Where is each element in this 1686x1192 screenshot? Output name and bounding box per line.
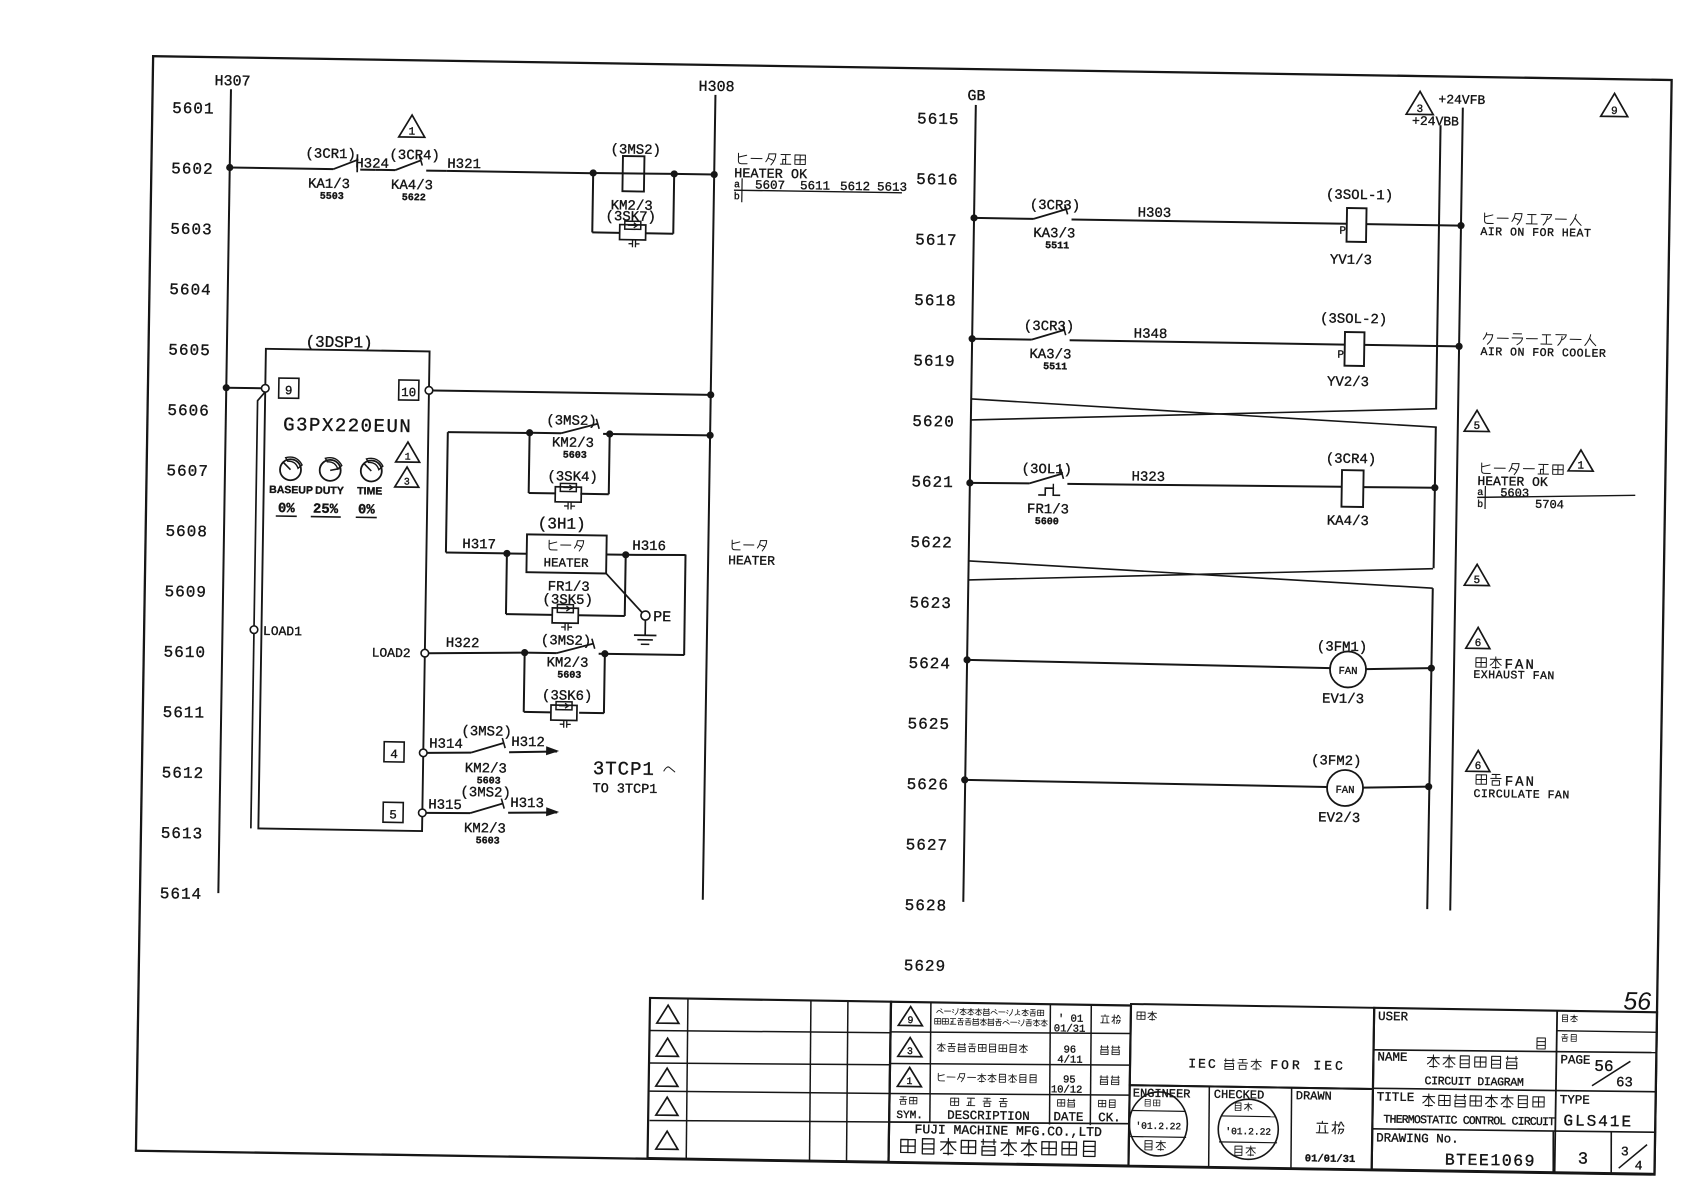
svg-text:+24VFB: +24VFB: [1438, 92, 1485, 108]
svg-text:(3OL1): (3OL1): [1021, 462, 1072, 479]
junction GB row 5624: [963, 656, 970, 663]
svg-text:H324: H324: [355, 156, 389, 173]
junction box edge row 5626: [1425, 783, 1432, 790]
svg-text:6: 6: [1475, 638, 1482, 650]
junction box edge row 5624: [1428, 665, 1435, 672]
svg-text:USER: USER: [1378, 1010, 1409, 1024]
svg-text:3: 3: [1578, 1151, 1589, 1170]
svg-text:5603: 5603: [557, 670, 581, 681]
svg-text:5602: 5602: [171, 160, 214, 179]
knob BASEUP: [280, 459, 301, 480]
svg-text:(3FM2): (3FM2): [1311, 753, 1362, 770]
wire H313 with arrow: [508, 812, 557, 814]
svg-text:(3SOL-1): (3SOL-1): [1326, 187, 1393, 204]
svg-text:HEATER: HEATER: [728, 553, 775, 569]
wire H307 to terminal 9: [226, 387, 261, 390]
svg-text:5627: 5627: [906, 836, 949, 855]
warning triangle 1 heater ok: [1568, 450, 1593, 471]
warning triangle 5 lower: [1464, 564, 1489, 585]
revision row1 text JP: [935, 1008, 1048, 1027]
terminal 10 circle: [425, 387, 433, 395]
svg-text:SYM.: SYM.: [896, 1110, 923, 1122]
contact KA3/3 (3CR3) second: [1032, 330, 1064, 341]
svg-text:'01.2.22: '01.2.22: [1225, 1126, 1271, 1138]
svg-text:10/12: 10/12: [1051, 1084, 1083, 1096]
svg-text:H315: H315: [428, 797, 462, 814]
spark killer 3SK7 loop: [592, 173, 674, 234]
label heater JP in box: [549, 540, 557, 550]
wire H307 vertical bus: [218, 89, 231, 893]
svg-text:KM2/3: KM2/3: [546, 655, 588, 672]
svg-text:5503: 5503: [320, 192, 344, 203]
svg-text:KM2/3: KM2/3: [464, 821, 506, 838]
svg-text:5601: 5601: [172, 100, 215, 119]
terminal 4 pin box: [384, 742, 404, 762]
revision blank triangle row3: [656, 1068, 678, 1086]
svg-text:5607: 5607: [166, 462, 209, 481]
wire coil to box edge: [1363, 487, 1434, 489]
svg-text:H317: H317: [462, 537, 496, 554]
svg-text:BTEE1069: BTEE1069: [1445, 1150, 1537, 1170]
terminal 9 pin box: [279, 378, 299, 398]
terminal 10 pin box: [399, 380, 419, 400]
svg-text:5623: 5623: [909, 594, 952, 613]
wire H322: [429, 651, 525, 655]
wire corner up: [684, 555, 686, 655]
junction H316: [622, 551, 629, 558]
wire solenoid2 to +24VFB: [1364, 345, 1459, 346]
svg-text:H323: H323: [1131, 469, 1165, 486]
net row labels 5601-5614: [160, 100, 215, 904]
svg-text:5622: 5622: [402, 193, 426, 204]
svg-text:(3CR4): (3CR4): [389, 148, 440, 165]
svg-text:YV2/3: YV2/3: [1327, 374, 1369, 391]
svg-text:10: 10: [401, 386, 416, 400]
revision triangle 9: [898, 1006, 922, 1025]
junction on H307 row 5602: [226, 164, 233, 171]
svg-text:5603: 5603: [563, 451, 587, 462]
warning triangle 3 in 3DSP1: [395, 467, 419, 487]
FR1/3 3SK5 loop left: [505, 553, 508, 614]
svg-text:FAN: FAN: [1338, 666, 1357, 678]
crossref a: 5607 5611 5612 5613: [734, 178, 907, 195]
svg-text:6: 6: [1475, 761, 1482, 773]
revision blank triangle row5: [656, 1131, 678, 1149]
wire H308 vertical bus: [703, 95, 716, 900]
svg-text:5605: 5605: [168, 341, 211, 360]
revision header DESCRIPTION (JP): [951, 1098, 959, 1105]
wire down to H317: [446, 432, 448, 552]
svg-text:TIME: TIME: [357, 485, 382, 497]
revision row3 text JP: [938, 1073, 944, 1081]
svg-text:KM2/3: KM2/3: [465, 761, 507, 778]
label note JP: [1137, 1012, 1145, 1019]
junction on H308 row 5606: [707, 391, 714, 398]
svg-text:3: 3: [404, 478, 410, 489]
revision blank triangle row4: [656, 1097, 678, 1115]
svg-text:(3CR3): (3CR3): [1030, 198, 1081, 215]
wire 5602 left segment: [230, 168, 333, 170]
svg-text:25%: 25%: [313, 502, 339, 518]
svg-text:PAGE: PAGE: [1560, 1053, 1590, 1067]
terminal 5 pin box: [383, 802, 403, 822]
svg-text:5622: 5622: [910, 534, 953, 553]
svg-text:5617: 5617: [915, 231, 958, 250]
svg-text:5613: 5613: [161, 825, 204, 844]
svg-text:5: 5: [1474, 575, 1481, 587]
svg-text:LOAD1: LOAD1: [263, 624, 302, 640]
wire LOAD1 down: [251, 634, 254, 829]
svg-text:THERMOSTATIC CONTROL CIRCUIT: THERMOSTATIC CONTROL CIRCUIT: [1383, 1113, 1555, 1129]
svg-text:H316: H316: [632, 539, 666, 556]
wire H321: [446, 171, 593, 173]
svg-text:56: 56: [1623, 987, 1651, 1015]
warning triangle 9 top right: [1601, 93, 1628, 116]
svg-text:9: 9: [285, 384, 293, 398]
svg-text:+24VBB: +24VBB: [1412, 114, 1459, 130]
section boundary crossing lines X2: [969, 561, 1433, 588]
sheet cell divider: [1553, 1132, 1554, 1173]
revision row2 CK: [1100, 1046, 1108, 1055]
svg-text:KA4/3: KA4/3: [1327, 514, 1369, 531]
junction left 3MS2 contact: [526, 429, 533, 436]
contact KA1/3 (3CR1): [333, 154, 375, 173]
svg-text:5629: 5629: [904, 957, 947, 976]
svg-text:AIR ON FOR COOLER: AIR ON FOR COOLER: [1480, 346, 1606, 361]
revision header DATE (JP): [1058, 1100, 1065, 1107]
svg-text:HEATER: HEATER: [543, 556, 589, 571]
junction on H308 row 5602: [711, 171, 718, 178]
svg-text:5612: 5612: [162, 764, 205, 783]
name JP circuit diagram: [1427, 1055, 1439, 1068]
svg-text:CIRCUIT DIAGRAM: CIRCUIT DIAGRAM: [1424, 1075, 1524, 1090]
section box3 right edge: [1427, 588, 1433, 909]
svg-text:5511: 5511: [1045, 241, 1069, 252]
svg-text:5606: 5606: [167, 402, 210, 421]
section box2 right edge: [1434, 427, 1436, 568]
wire 5624 to fan: [967, 660, 1330, 668]
svg-text:FR1/3: FR1/3: [1027, 502, 1069, 519]
engineer stamp: [1129, 1091, 1188, 1156]
wire H312 with arrow: [509, 751, 557, 753]
svg-text:5: 5: [1473, 421, 1480, 433]
terminal 9 circle: [261, 384, 269, 392]
svg-text:(3MS2): (3MS2): [460, 785, 511, 802]
svg-text:H308: H308: [698, 79, 734, 97]
svg-text:KM2/3: KM2/3: [552, 435, 594, 452]
wire LOAD2 contact to corner: [599, 654, 685, 655]
revision table frame: [648, 998, 891, 1162]
svg-text:0%: 0%: [358, 502, 376, 518]
warning triangle 3 +24V: [1406, 91, 1433, 114]
warning triangle 6 circulate: [1466, 750, 1490, 771]
wire H348: [1070, 340, 1345, 344]
svg-text:5: 5: [389, 808, 397, 822]
svg-text:P: P: [1337, 350, 1344, 362]
terminal 4 circle: [419, 749, 427, 757]
svg-text:(3MS2): (3MS2): [546, 413, 597, 430]
svg-text:CK.: CK.: [1098, 1111, 1121, 1125]
svg-text:5621: 5621: [911, 473, 954, 492]
svg-text:DATE: DATE: [1053, 1110, 1083, 1124]
svg-text:P: P: [1339, 226, 1346, 238]
warning triangle 6 exhaust: [1466, 627, 1490, 648]
svg-text:3: 3: [907, 1047, 913, 1058]
revision blank triangle row2: [656, 1038, 678, 1056]
svg-text:(3H1): (3H1): [538, 515, 586, 534]
revision header CK (JP): [1098, 1100, 1105, 1107]
wire fan2 to box edge: [1363, 786, 1429, 789]
svg-text:5625: 5625: [907, 715, 950, 734]
label cooler air in (JP): [1483, 333, 1493, 345]
svg-text:KA3/3: KA3/3: [1033, 226, 1075, 243]
wire solenoid1 to +24VFB: [1366, 224, 1461, 225]
svg-text:(3MS2): (3MS2): [610, 142, 661, 159]
svg-text:1: 1: [408, 127, 415, 139]
wire H324: [375, 169, 395, 171]
svg-text:(3SOL-2): (3SOL-2): [1320, 311, 1387, 328]
svg-text:TITLE: TITLE: [1377, 1090, 1415, 1105]
svg-text:0%: 0%: [278, 501, 296, 517]
svg-text:H321: H321: [447, 157, 481, 174]
svg-text:1: 1: [1577, 460, 1584, 472]
svg-text:DESCRIPTION: DESCRIPTION: [947, 1109, 1030, 1124]
warning triangle 5 upper: [1464, 410, 1489, 431]
solenoid 3SOL-1: [1347, 208, 1367, 242]
svg-text:5620: 5620: [912, 413, 955, 432]
svg-text:5626: 5626: [906, 776, 949, 795]
svg-text:5704: 5704: [1535, 498, 1564, 512]
wire to junction right: [603, 433, 610, 435]
spark killer 3SK6 loop: [524, 653, 605, 714]
wire 5621 left: [970, 482, 1030, 483]
svg-text:H348: H348: [1134, 326, 1168, 343]
svg-text:BASEUP: BASEUP: [269, 484, 313, 497]
sheet fraction 3/4: [1619, 1144, 1647, 1173]
svg-text:GB: GB: [967, 88, 985, 105]
fan motor 3FM1: [1330, 651, 1367, 688]
svg-text:TYPE: TYPE: [1560, 1093, 1590, 1107]
junction right 3MS2 contact: [606, 430, 613, 437]
wire H315: [426, 812, 470, 813]
svg-text:5603: 5603: [170, 221, 213, 240]
terminal 5 circle: [418, 809, 426, 817]
revision triangle 3: [898, 1037, 922, 1056]
svg-text:DRAWING No.: DRAWING No.: [1376, 1131, 1459, 1146]
svg-text:EV2/3: EV2/3: [1318, 810, 1360, 827]
svg-text:FUJI MACHINE MFG.CO.,LTD: FUJI MACHINE MFG.CO.,LTD: [914, 1122, 1102, 1140]
svg-text:5624: 5624: [908, 655, 951, 674]
svg-text:DUTY: DUTY: [315, 485, 344, 497]
contact KA3/3 (3CR3): [1034, 209, 1066, 220]
wire heater to PE: [605, 573, 642, 612]
svg-text:4: 4: [390, 748, 398, 762]
svg-text:5618: 5618: [914, 292, 957, 311]
spark killer 3SK4: [555, 487, 581, 502]
svg-text:GLS41E: GLS41E: [1563, 1112, 1633, 1131]
svg-text:(3MS2): (3MS2): [461, 724, 512, 741]
junction +24VFB row 5617: [1457, 222, 1464, 229]
revision row1 CK: [1101, 1015, 1110, 1023]
wire H323: [1067, 482, 1341, 488]
label heater-normal (JP): [738, 153, 747, 164]
svg-text:3: 3: [1621, 1144, 1629, 1159]
svg-text:b: b: [1477, 499, 1483, 511]
ground symbol: [634, 620, 657, 645]
svg-text:KA4/3: KA4/3: [391, 178, 433, 195]
label shuban JP: [1561, 1035, 1568, 1042]
section boundary crossing lines X1: [971, 399, 1437, 427]
svg-text:H314: H314: [429, 736, 463, 753]
heater 3H1 box: [526, 534, 606, 573]
svg-text:5600: 5600: [1035, 517, 1059, 528]
svg-text:(3CR1): (3CR1): [305, 146, 356, 163]
svg-text:9: 9: [907, 1016, 913, 1027]
svg-text:'01.2.22: '01.2.22: [1135, 1121, 1181, 1133]
svg-text:1: 1: [405, 453, 411, 464]
terminal PE circle: [641, 611, 650, 620]
revision sub-table frame: [889, 1002, 1131, 1166]
wire GB vertical bus: [963, 105, 976, 902]
wire H317 to heater: [507, 552, 527, 554]
contact KM2/3 (3MS2) heater: [530, 432, 561, 434]
svg-text:5615: 5615: [917, 110, 960, 129]
svg-text:LOAD2: LOAD2: [372, 646, 411, 662]
label heater JP right: [732, 540, 740, 550]
svg-text:63: 63: [1616, 1075, 1633, 1091]
svg-text:FOR IEC: FOR IEC: [1270, 1058, 1346, 1074]
junction on H307 row 5606: [223, 384, 230, 391]
junction GB row 5617: [970, 214, 977, 221]
svg-text:01/01/31: 01/01/31: [1305, 1153, 1356, 1166]
svg-text:5610: 5610: [163, 644, 206, 663]
junction left LOAD2 contact: [521, 649, 528, 656]
junction box edge row 5621: [1431, 484, 1438, 491]
drawn name JP: [1316, 1121, 1328, 1133]
wire 5626 to fan: [965, 780, 1327, 787]
svg-text:H313: H313: [510, 796, 544, 813]
page fraction 56/63: [1592, 1058, 1633, 1092]
svg-text:3TCP1: 3TCP1: [593, 758, 655, 781]
FR1/3 3SK5 loop right: [578, 614, 625, 617]
wire terminal 10 to H308: [433, 390, 711, 394]
svg-text:IEC: IEC: [1188, 1056, 1218, 1071]
svg-text:AIR ON FOR HEAT: AIR ON FOR HEAT: [1480, 226, 1591, 241]
svg-text:5616: 5616: [916, 171, 959, 190]
junction GB row 5626: [961, 776, 968, 783]
svg-text:5611: 5611: [163, 704, 206, 723]
spark killer 3SK6: [551, 705, 577, 720]
svg-text:PE: PE: [653, 609, 671, 626]
warning triangle 1 in 3DSP1: [396, 442, 420, 462]
svg-text:4/11: 4/11: [1057, 1054, 1082, 1066]
spark killer 3SK7: [620, 225, 646, 240]
revision triangle 1: [897, 1067, 921, 1086]
svg-text:5603: 5603: [476, 836, 500, 847]
svg-text:TO 3TCP1: TO 3TCP1: [592, 782, 657, 798]
junction right LOAD2 contact: [601, 650, 608, 657]
svg-text:H303: H303: [1138, 206, 1172, 223]
svg-text:H322: H322: [446, 636, 480, 653]
knob DUTY: [320, 460, 341, 481]
contact KM2/3 terminal4: [471, 743, 503, 754]
warning triangle 1: [399, 115, 425, 137]
svg-text:EXHAUST FAN: EXHAUST FAN: [1473, 669, 1555, 683]
svg-text:DRAWN: DRAWN: [1296, 1089, 1332, 1104]
junction H317: [503, 550, 510, 557]
wire through coil to junction: [593, 173, 674, 175]
crossref b 5704: [1477, 497, 1564, 512]
wire terminal 9 to LOAD1: [254, 392, 265, 630]
svg-text:9: 9: [1611, 106, 1618, 118]
company name JP: [901, 1139, 916, 1152]
svg-text:(3SK7): (3SK7): [605, 209, 656, 226]
crossref a 5603: [1477, 486, 1635, 502]
wire H303: [1072, 219, 1347, 223]
label circulate fan (JP): [1476, 775, 1487, 785]
SSR unit 3DSP1 outline: [258, 349, 429, 831]
svg-text:(3FM1): (3FM1): [1317, 639, 1368, 656]
junction left of coil 3MS2: [590, 169, 597, 176]
net row labels 5615-5629: [904, 110, 960, 976]
svg-text:KA1/3: KA1/3: [308, 176, 350, 193]
checked stamp: [1218, 1099, 1279, 1160]
terminal LOAD2 circle: [421, 649, 429, 657]
svg-text:G3PX220EUN: G3PX220EUN: [283, 414, 412, 438]
svg-text:H307: H307: [214, 73, 250, 91]
svg-text:FAN: FAN: [1335, 785, 1354, 797]
svg-text:5603: 5603: [1500, 486, 1529, 500]
junction GB row 5619: [968, 335, 975, 342]
svg-text:H312: H312: [511, 735, 545, 752]
label bunrui JP: [1562, 1015, 1567, 1022]
notes box: [1130, 1004, 1375, 1089]
terminal LOAD1 circle: [250, 626, 258, 634]
junction +24VFB row 5619: [1455, 343, 1462, 350]
junction GB row 5621: [966, 479, 973, 486]
svg-text:5608: 5608: [165, 523, 208, 542]
svg-text:(3MS2): (3MS2): [541, 633, 592, 650]
thermal contact FR1/3 (3OL1): [1029, 468, 1063, 495]
label heater air in (JP): [1485, 213, 1494, 224]
svg-text:5609: 5609: [164, 583, 207, 602]
svg-text:5628: 5628: [905, 897, 948, 916]
wire heater to H316: [606, 553, 625, 555]
fan motor 3FM2: [1327, 770, 1364, 807]
wire +24VBB vertical / section box right edge: [1436, 125, 1440, 408]
junction right of coil 3MS2: [671, 170, 678, 177]
junction on H308 heater rung: [706, 432, 713, 439]
wire 5617 left: [974, 217, 1033, 220]
solenoid 3SOL-2: [1344, 332, 1364, 366]
wire fan1 to box edge: [1366, 667, 1431, 670]
svg-text:NAME: NAME: [1377, 1050, 1407, 1064]
svg-text:CIRCULATE FAN: CIRCULATE FAN: [1473, 788, 1569, 803]
label IEC FOR IEC: [1188, 1056, 1346, 1073]
wire contact to H308: [610, 434, 710, 436]
label dono JP: [1537, 1038, 1545, 1049]
svg-text:5604: 5604: [169, 281, 212, 300]
revision header SYM (JP): [900, 1097, 907, 1104]
svg-text:YV1/3: YV1/3: [1330, 253, 1372, 270]
title block frame: [1372, 1008, 1659, 1174]
svg-text:4: 4: [1635, 1158, 1643, 1173]
revision row3 CK: [1100, 1076, 1108, 1085]
svg-text:b: b: [734, 191, 740, 203]
spark killer 3SK5: [552, 608, 578, 623]
coil KM2/3 (3MS2): [622, 156, 644, 192]
label heater normal (JP) right: [1482, 463, 1491, 474]
